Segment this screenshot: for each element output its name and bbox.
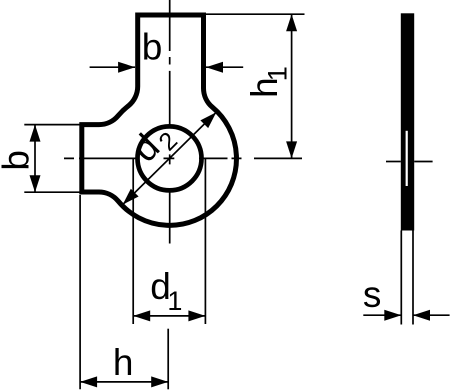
svg-text:h: h <box>113 342 134 383</box>
svg-text:b: b <box>142 27 163 68</box>
svg-text:s: s <box>363 274 382 315</box>
svg-text:b: b <box>0 150 36 171</box>
